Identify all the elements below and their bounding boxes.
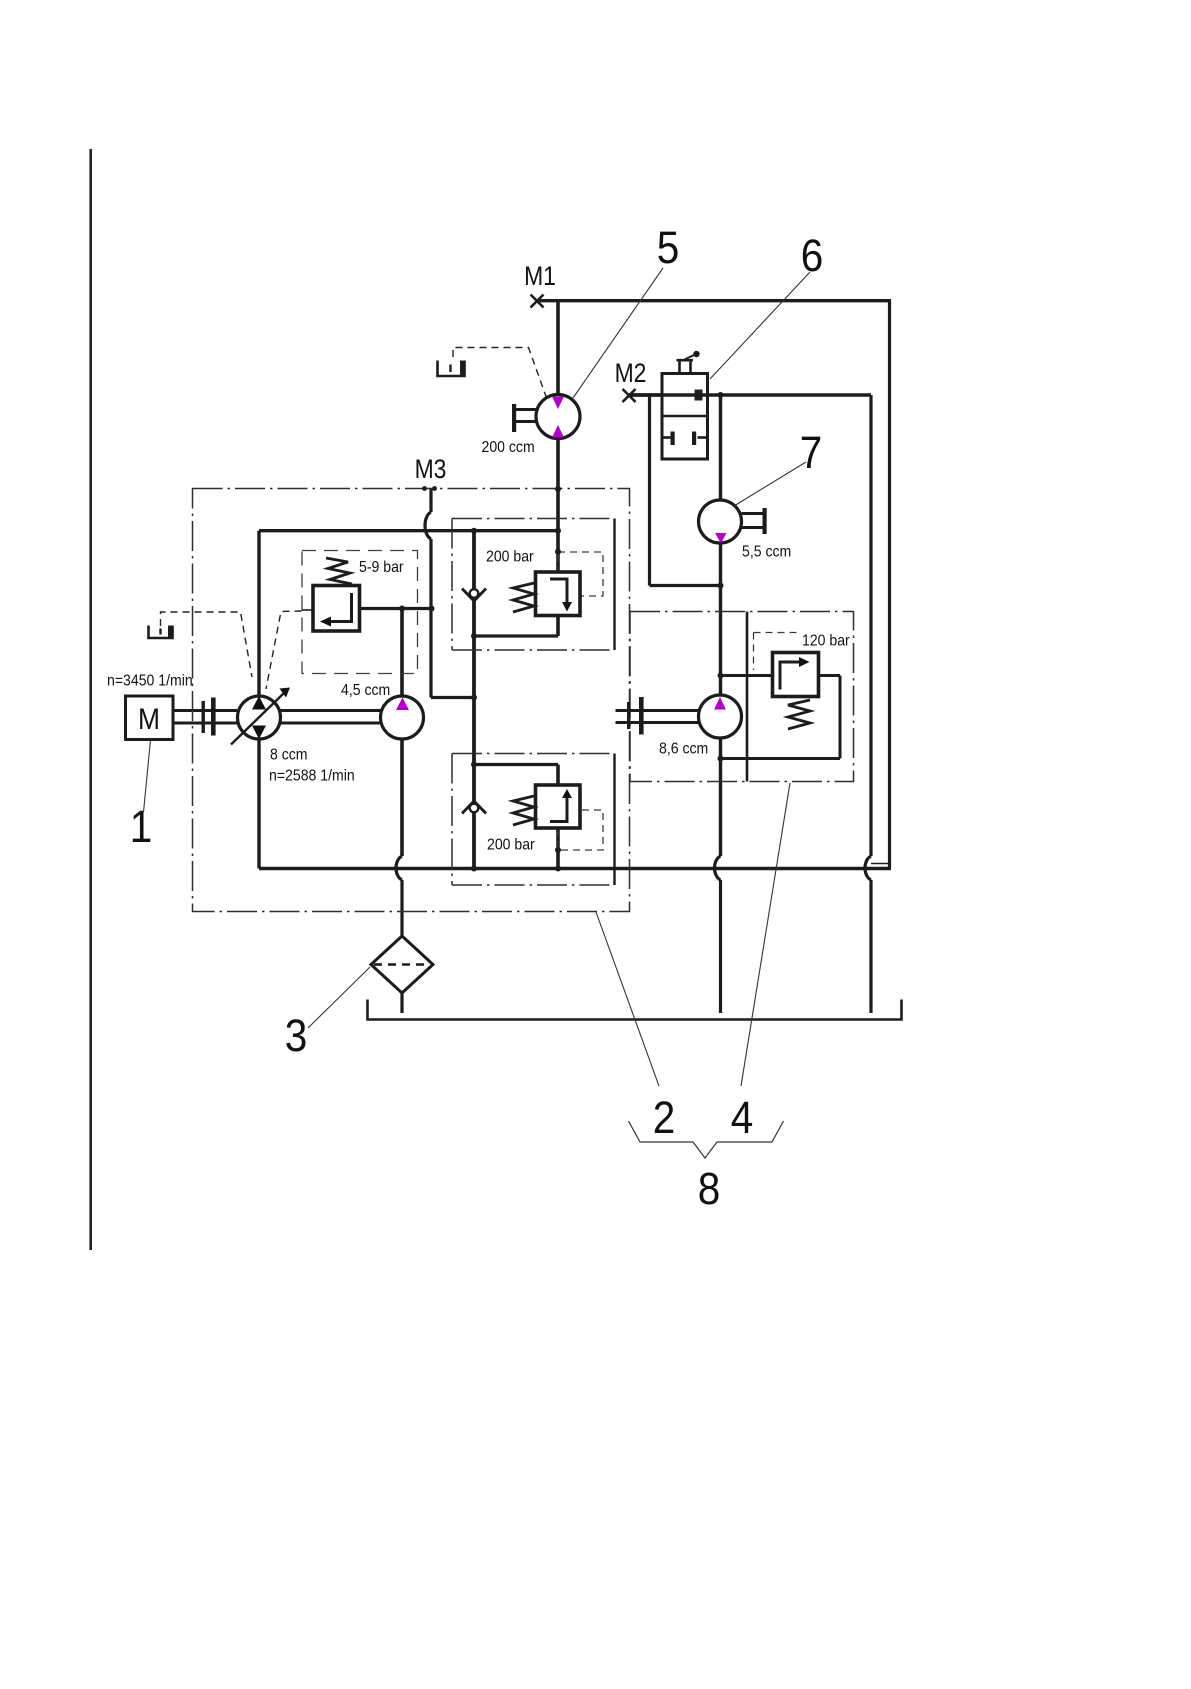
svg-text:M1: M1 [524,261,556,291]
svg-text:1: 1 [130,802,153,852]
svg-text:120 bar: 120 bar [802,632,850,650]
svg-text:n=2588 1/min: n=2588 1/min [269,767,355,785]
svg-text:6: 6 [801,231,824,281]
svg-text:200 ccm: 200 ccm [482,438,535,456]
svg-text:7: 7 [800,428,823,478]
svg-text:8,6 ccm: 8,6 ccm [659,740,708,758]
svg-text:5: 5 [657,223,680,273]
svg-text:8: 8 [698,1164,721,1214]
svg-text:4: 4 [731,1093,754,1143]
svg-text:8 ccm: 8 ccm [270,746,308,764]
svg-text:2: 2 [653,1093,676,1143]
svg-text:5-9 bar: 5-9 bar [359,558,404,576]
svg-text:200 bar: 200 bar [487,836,535,854]
svg-text:5,5 ccm: 5,5 ccm [742,543,791,561]
svg-text:4,5 ccm: 4,5 ccm [341,681,390,699]
svg-text:M3: M3 [415,454,447,484]
svg-text:200 bar: 200 bar [486,548,534,566]
svg-text:M2: M2 [615,358,647,388]
svg-text:3: 3 [285,1011,308,1061]
svg-text:n=3450 1/min: n=3450 1/min [107,672,193,690]
svg-text:M: M [138,701,160,735]
